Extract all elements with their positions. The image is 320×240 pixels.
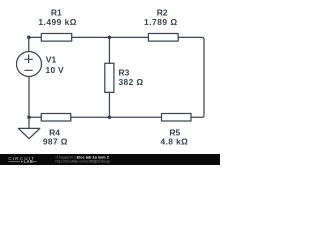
svg-text:R3: R3 xyxy=(119,67,130,77)
svg-text:4.8 kΩ: 4.8 kΩ xyxy=(161,137,189,147)
svg-text:1.499 kΩ: 1.499 kΩ xyxy=(38,17,77,27)
svg-text:LAB: LAB xyxy=(24,159,34,164)
svg-text:http://circuitlab.com/c/8fdj62: http://circuitlab.com/c/8fdj62mbuqp xyxy=(56,160,111,164)
svg-text:V1: V1 xyxy=(46,55,57,65)
svg-text:987 Ω: 987 Ω xyxy=(43,137,68,147)
svg-text:382 Ω: 382 Ω xyxy=(119,77,144,87)
svg-text:1.789 Ω: 1.789 Ω xyxy=(144,17,178,27)
svg-text:10 V: 10 V xyxy=(46,65,65,75)
